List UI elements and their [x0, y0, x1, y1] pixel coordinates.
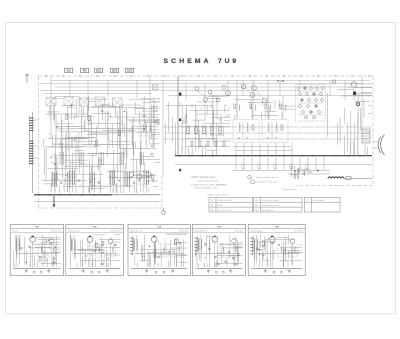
cathode resistor block (dark): [353, 92, 356, 95]
svg-text:SCHEMA: SCHEMA: [164, 58, 212, 65]
panel 2 components: [85, 242, 116, 265]
svg-text:L2: L2: [219, 259, 221, 261]
wire vertical drops from top runs: [51, 76, 362, 176]
svg-text:Pres.Fono: Pres.Fono: [294, 230, 303, 233]
blocking capacitor C11 (dark): [179, 119, 181, 122]
panel 5 wiring: [254, 235, 302, 268]
panel 3 output terminals: [155, 271, 165, 273]
svg-text:215Vca 55-60Hz - 125 c.: 215Vca 55-60Hz - 125 c.: [195, 188, 220, 190]
svg-text:150: 150: [203, 257, 206, 259]
panel 2 wiring: [70, 235, 120, 268]
svg-text:25p: 25p: [262, 246, 265, 248]
panel 5 input transformer: [253, 235, 257, 251]
screen supply vertical (dark): [177, 76, 179, 156]
svg-text:2k2: 2k2: [86, 130, 89, 132]
svg-text:L2: L2: [17, 245, 19, 247]
svg-text:5n: 5n: [64, 161, 66, 163]
band switch box PO: [81, 68, 89, 73]
filter choke L9 (dark coil): [328, 177, 372, 180]
tube V8 (small): [332, 80, 335, 83]
coils L3-L7 (hatched): [187, 126, 222, 134]
panel 2 output terminals: [91, 271, 100, 273]
panel 5 components: [256, 241, 286, 255]
oscillator coil box L1 (crossed box): [80, 98, 89, 106]
band switch box OC3: [126, 68, 134, 73]
IF transformer T2 (dashed can): [139, 122, 155, 136]
svg-text:T1 145Vca 50 Hz su filtro 7AB: T1 145Vca 50 Hz su filtro 7AB6/EF94: [191, 183, 228, 186]
tube stage V6: [142, 170, 154, 185]
long IF wires: [163, 127, 372, 139]
svg-text:mV/m 30 p.es Vacuo: mV/m 30 p.es Vacuo: [262, 205, 279, 207]
svg-text:Filtro Rete: Filtro Rete: [180, 230, 189, 233]
svg-text:GO: GO: [67, 69, 71, 73]
switch S1 (crossed box): [153, 85, 159, 90]
panel 3 labels: [136, 240, 181, 257]
svg-text:2k2: 2k2: [91, 254, 94, 256]
panel 1 labels: [17, 238, 49, 262]
svg-text:NOTA: Tensioni di rete: NOTA: Tensioni di rete: [192, 176, 216, 179]
mid component labels (smudge): [191, 105, 230, 121]
panel 4 ground bus: [195, 269, 242, 273]
svg-text:al trasf. alimentazione: al trasf. alimentazione: [197, 180, 219, 183]
svg-text:3: 3: [264, 100, 265, 102]
svg-text:Schema Fono: Schema Fono: [110, 231, 122, 233]
top border terminal ticks: [46, 75, 369, 77]
panel 5 terminal ticks: [250, 237, 252, 255]
panel 4 terminal ticks: [195, 237, 197, 255]
svg-text:Tensioni effettive dei circ.: Tensioni effettive dei circ.: [256, 176, 280, 179]
svg-text:Banda Zoccoli: Banda Zoccoli: [130, 231, 143, 233]
svg-text:Banda Cont.V.: Banda Cont.V.: [68, 230, 81, 233]
svg-text:Cont.Tono: Cont.Tono: [235, 230, 244, 233]
band switch box OC2: [111, 68, 119, 73]
panel 3 input transformer: [133, 235, 137, 251]
panel 3 secondary can: [160, 244, 181, 257]
svg-text:47k: 47k: [234, 238, 237, 240]
output tube V7: [351, 82, 357, 100]
voltage table A (T1-T3): [209, 197, 253, 212]
panel 2 ground bus: [69, 269, 121, 273]
panel 4 components: [204, 244, 240, 265]
notes NOTA block: [191, 176, 228, 189]
panel 1 second valve: [50, 239, 54, 266]
panel 2 secondary can: [96, 244, 116, 257]
svg-text:0.1: 0.1: [205, 245, 207, 247]
tuner block value labels (smudge): [48, 121, 146, 189]
ground terminal (circled): [162, 208, 166, 214]
tuner block component marks: [51, 104, 159, 187]
mixer stage wires (irregular): [165, 96, 230, 155]
panel 1 ground bus: [13, 269, 60, 273]
note callout circles: [248, 175, 280, 183]
rectifier cluster: [291, 166, 312, 179]
tuning gang capacitor C2 (crossed box): [64, 97, 73, 106]
antenna: [25, 73, 29, 83]
svg-text:Vca di alimen.: Vca di alimen.: [313, 200, 325, 202]
title SCHEMA 7U9: [164, 58, 239, 65]
svg-text:0.1: 0.1: [157, 243, 159, 245]
panel 1 valve: [30, 236, 36, 268]
loudspeaker LS: [373, 135, 385, 156]
svg-text:8k: 8k: [58, 179, 60, 181]
svg-text:L2: L2: [65, 181, 67, 183]
svg-text:150: 150: [199, 256, 202, 258]
panel 3 ground bus: [131, 269, 187, 273]
svg-text:47k: 47k: [46, 238, 49, 240]
panel 1 input transformer: [15, 235, 19, 251]
svg-text:OC1: OC1: [96, 69, 102, 73]
svg-text:OC2: OC2: [112, 69, 118, 73]
oscillator pin circles: [195, 86, 226, 103]
svg-text:2k2: 2k2: [273, 251, 276, 253]
svg-text:0.1: 0.1: [138, 170, 141, 172]
sub-schematic panel 2 frame: [66, 224, 124, 275]
panel 3 second valve: [174, 239, 178, 266]
svg-text:C12: C12: [212, 240, 215, 242]
svg-text:2: 2: [253, 88, 254, 90]
svg-text:47k: 47k: [46, 255, 49, 257]
svg-text:1: 1: [243, 86, 244, 88]
sub-schematic panel 4 frame: [192, 224, 245, 275]
svg-text:GO 1 PO 1 OC 1: GO 1 PO 1 OC 1: [218, 210, 232, 212]
panel 3 terminal ticks: [130, 237, 132, 255]
panel 3 valve: [151, 236, 157, 268]
panel 1 components: [20, 240, 56, 264]
panel 5 valve: [269, 236, 275, 268]
panel 3 wiring: [135, 234, 187, 267]
svg-text:47k: 47k: [210, 107, 213, 109]
IF transformer can T-B (crossed box): [113, 98, 123, 107]
panel 4 second valve: [232, 239, 236, 266]
svg-text:150: 150: [48, 134, 51, 136]
chassis boundary (dash-dot): [39, 76, 374, 208]
svg-text:PO: PO: [83, 69, 87, 73]
band switch box OC1: [95, 68, 103, 73]
panel 2 second valve: [109, 239, 113, 266]
svg-text:Tabella tensioni elettrodi: Tabella tensioni elettrodi: [207, 194, 228, 197]
svg-text:Banda: Banda: [12, 231, 18, 233]
svg-text:8k: 8k: [46, 260, 48, 262]
electrolytic capacitor (dark ring): [356, 102, 359, 106]
panel 4 secondary can: [220, 244, 238, 257]
panel 1 secondary can: [38, 244, 56, 257]
panel 4 cathode rail: [198, 253, 239, 255]
svg-text:5: 5: [227, 93, 228, 95]
tube stage V2: [68, 170, 80, 185]
detector triode circles: [129, 172, 151, 179]
svg-text:OC3: OC3: [127, 69, 133, 73]
panel 4 labels: [199, 238, 237, 261]
power arrow: [53, 196, 56, 208]
resistors R10-R14: [191, 141, 225, 146]
svg-text:C4: C4: [93, 133, 95, 135]
svg-text:5n: 5n: [87, 254, 89, 256]
svg-text:0.1: 0.1: [138, 184, 141, 186]
svg-text:C12: C12: [287, 240, 290, 242]
svg-text:misurate V. su FI - 24 w: misurate V. su FI - 24 w: [257, 180, 279, 183]
svg-text:50 Volumi res: 50 Volumi res: [262, 209, 274, 212]
panel 5 cathode rail: [254, 253, 299, 255]
sub-schematic panel 5 frame: [248, 224, 305, 275]
tube stage V1: [50, 172, 62, 187]
svg-text:5n: 5n: [164, 240, 166, 242]
tube stage V3: [88, 172, 100, 187]
panel 5 output terminals: [273, 271, 282, 273]
panel 2 labels: [81, 237, 102, 256]
ground bus (left block): [34, 194, 160, 196]
svg-text:L2: L2: [115, 166, 117, 168]
svg-text:L2: L2: [144, 187, 146, 189]
input connector J1: [30, 112, 39, 193]
valve pin callouts (circled numbers): [226, 84, 267, 103]
svg-text:6 750 KC=455 KC: 6 750 KC=455 KC: [218, 200, 234, 202]
svg-text:FI . 29: FI . 29: [277, 80, 285, 83]
panel 5 ground bus: [251, 269, 302, 273]
tube stage V4: [108, 170, 120, 185]
svg-text:7U9: 7U9: [218, 58, 239, 65]
IF stage vertical clusters: [60, 152, 144, 165]
svg-text:MF/FI: MF/FI: [218, 205, 223, 207]
svg-text:Schema Altop.: Schema Altop.: [250, 230, 263, 233]
panel 1 output terminals: [33, 271, 42, 273]
sub-schematic panel 3 frame: [128, 224, 190, 275]
panel 5 second valve: [290, 239, 294, 266]
svg-text:5n: 5n: [191, 107, 193, 109]
svg-text:C4: C4: [168, 255, 170, 257]
heater supply wire: [34, 201, 161, 203]
svg-text:5n: 5n: [30, 256, 32, 258]
IF transformer T3 (dashed can): [233, 120, 259, 143]
IF transformer T4 (dashed can): [262, 120, 288, 143]
svg-text:25p: 25p: [214, 117, 217, 119]
tube stage V5: [123, 172, 135, 187]
wires of tuner block (irregular mesh): [42, 96, 160, 193]
band switch box GO: [65, 68, 73, 73]
svg-text:Potenz.Fon.: Potenz.Fon.: [51, 230, 62, 233]
svg-text:2k2: 2k2: [218, 119, 221, 121]
valve socket diagram panel: [296, 85, 326, 122]
blocking capacitor C10 (dark): [179, 93, 181, 96]
svg-text:25p: 25p: [279, 261, 282, 263]
output transformer T5 (hatched): [362, 129, 370, 143]
voltage table B (T4-T6): [254, 197, 303, 212]
panel 1 cathode rail: [16, 253, 57, 255]
right section wires (irregular): [328, 84, 372, 155]
svg-text:C12: C12: [81, 248, 84, 250]
voltage table C (T7): [305, 197, 341, 212]
panel 4 valve: [212, 236, 218, 268]
panel 4 wiring: [196, 235, 243, 268]
sub-schematic panel 1 frame: [10, 224, 63, 275]
blocking capacitor C12 (dark): [179, 169, 181, 172]
svg-text:5n: 5n: [87, 237, 89, 239]
panel 4 output terminals: [215, 271, 224, 273]
main ground bus: [175, 155, 372, 157]
wire top horizontal runs: [40, 81, 372, 96]
svg-text:L2: L2: [256, 256, 258, 258]
svg-text:150: 150: [51, 162, 54, 164]
svg-text:mV/m 1 mV Zoccoli: mV/m 1 mV Zoccoli: [262, 200, 279, 202]
panel 1 wiring: [14, 235, 61, 268]
svg-text:C4: C4: [228, 108, 230, 110]
grid resistor/coil stacks: [234, 96, 286, 119]
panel 5 secondary can: [278, 244, 297, 257]
panel 5 labels: [256, 240, 291, 263]
svg-text:Banda Antenne: Banda Antenne: [194, 230, 207, 233]
svg-text:C4: C4: [285, 242, 287, 244]
panel 3 components: [142, 240, 181, 261]
panel 2 cathode rail: [72, 253, 118, 255]
panel 4 input transformer: [197, 235, 201, 251]
panel 2 input transformer: [71, 235, 75, 251]
tuning gang capacitor C1 (crossed box): [46, 98, 56, 106]
svg-text:47k: 47k: [61, 121, 64, 123]
panel 2 valve: [87, 236, 93, 268]
svg-text:segue tab. valori: segue tab. valori: [283, 188, 297, 191]
wires to detector: [233, 100, 295, 156]
panel 3 cathode rail: [134, 253, 184, 255]
AVC network components: [232, 157, 330, 174]
IF transformer can T-A (crossed box): [95, 97, 105, 106]
return wire below bus: [175, 164, 372, 166]
svg-text:150: 150: [79, 185, 82, 187]
svg-text:47k: 47k: [200, 108, 203, 110]
